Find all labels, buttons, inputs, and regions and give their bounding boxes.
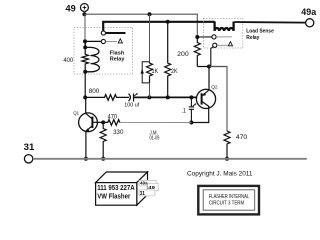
relay coil resistance 400 zigzag bbox=[82, 47, 89, 71]
resistor 470 base Q1 bbox=[103, 120, 120, 126]
VW flasher module 3D box bbox=[96, 172, 148, 205]
dashed box Load Sense Relay bbox=[203, 18, 242, 48]
wire 1K drop bbox=[149, 14, 151, 62]
svg-text:31: 31 bbox=[140, 191, 145, 197]
wire ground rail 31 bbox=[33, 158, 307, 160]
svg-text:Relay: Relay bbox=[246, 35, 260, 41]
wire 200 bottom to 470 drop bbox=[197, 66, 227, 68]
resistor 2K bbox=[165, 22, 171, 98]
load sense relay coil bbox=[215, 22, 234, 31]
node coil tap bbox=[83, 39, 87, 43]
wire coil top to contact K1b bbox=[85, 40, 101, 42]
wire contact K2b to emitter node bbox=[211, 47, 213, 67]
svg-text:Q2: Q2 bbox=[211, 85, 218, 91]
wire coil bottom to mid node bbox=[84, 72, 86, 98]
node Q2 base / C2 top bbox=[189, 95, 193, 99]
svg-text:Load Sense: Load Sense bbox=[246, 29, 274, 35]
svg-text:Relay: Relay bbox=[110, 56, 125, 62]
wire contact K2b throw bbox=[217, 44, 228, 46]
node 330 rail bbox=[101, 157, 105, 161]
terminal 49a bbox=[301, 7, 317, 27]
wire Q1 collector up bbox=[85, 97, 87, 113]
capacitor C2 value .1 bbox=[189, 97, 197, 122]
relay contact K1a pivot bbox=[101, 31, 105, 35]
node C2 bottom bbox=[189, 121, 193, 125]
wire contact K1b throw bbox=[106, 41, 117, 43]
relay contact K2a pivot bbox=[212, 35, 216, 39]
wire left vertical 49 to coil bbox=[84, 14, 86, 41]
svg-text:2K: 2K bbox=[171, 68, 178, 75]
terminal tab 49 bbox=[148, 183, 159, 190]
fixed contact triangle load sense bbox=[228, 42, 232, 46]
node mid left bbox=[83, 95, 87, 99]
svg-text:49: 49 bbox=[66, 3, 76, 14]
wire Q1 emitter to rail bbox=[85, 131, 87, 159]
relay contact K1b bbox=[101, 39, 105, 43]
trimmer 1K bbox=[141, 62, 153, 83]
terminal tab 49a bbox=[139, 180, 156, 185]
relay armature K1a bbox=[106, 32, 126, 34]
node Q2 emitter junction bbox=[207, 65, 211, 69]
node rail to 1K bbox=[148, 12, 152, 16]
dashed box Flash Relay bbox=[74, 28, 133, 75]
svg-text:.1: .1 bbox=[181, 107, 186, 114]
terminal 31 bbox=[24, 142, 35, 163]
terminal 49 bbox=[66, 3, 89, 14]
resistor 800 bbox=[85, 95, 129, 101]
svg-text:1K: 1K bbox=[152, 68, 159, 75]
svg-text:VW Flasher: VW Flasher bbox=[97, 191, 130, 200]
fixed contact triangle flash relay bbox=[118, 39, 122, 43]
relay contact K2b bbox=[213, 43, 217, 47]
wire 1K to mid line bbox=[149, 83, 151, 98]
svg-text:49: 49 bbox=[148, 185, 155, 191]
wire 200 top to contact K2a bbox=[197, 36, 212, 38]
wire top rail bbox=[84, 14, 197, 37]
node top rail junction bbox=[82, 12, 86, 16]
wire flash contact feed bbox=[103, 22, 215, 31]
resistor 470 right bbox=[224, 131, 230, 159]
wire coil to terminal 49a bbox=[235, 21, 306, 24]
node coil top bbox=[83, 45, 87, 49]
node 470 to ground rail bbox=[225, 157, 229, 161]
svg-text:800: 800 bbox=[89, 88, 100, 95]
svg-text:330: 330 bbox=[113, 129, 124, 136]
wire terminal 49 to top rail junction bbox=[83, 12, 85, 15]
svg-text:FLASHER INTERNAL: FLASHER INTERNAL bbox=[209, 194, 249, 200]
svg-text:200: 200 bbox=[177, 51, 189, 58]
node feed 2K bbox=[166, 20, 170, 24]
node Q1 base bbox=[101, 120, 105, 124]
svg-text:01-09: 01-09 bbox=[150, 135, 160, 141]
node 2K bottom bbox=[166, 95, 170, 99]
title box FLASHER INTERNAL CIRCUIT 3 TERM bbox=[198, 186, 259, 215]
svg-text:31: 31 bbox=[24, 142, 35, 153]
wire emitter node to 470 bbox=[209, 67, 227, 132]
svg-text:Copyright J. Mais 2011: Copyright J. Mais 2011 bbox=[187, 170, 253, 177]
transistor Q2 bbox=[196, 85, 218, 109]
resistor 200 bbox=[194, 37, 200, 67]
svg-text:100 uf: 100 uf bbox=[124, 103, 140, 109]
wire Q2 collector down bbox=[191, 106, 208, 122]
wire Q2 emitter up bbox=[208, 67, 210, 90]
capacitor C1 100uf bbox=[129, 93, 138, 102]
terminal tab 31 bbox=[139, 190, 155, 196]
relay coil 400 loops bbox=[85, 47, 99, 71]
svg-text:CIRCUIT 3 TERM: CIRCUIT 3 TERM bbox=[209, 201, 245, 207]
svg-text:49a: 49a bbox=[140, 181, 148, 187]
wire cap to Q2 base bbox=[134, 96, 197, 98]
wire 470 to C2 node bbox=[119, 121, 192, 123]
resistor 330 bbox=[100, 122, 106, 158]
svg-text:470: 470 bbox=[236, 134, 248, 141]
relay armature K2a bbox=[216, 36, 231, 38]
svg-text:Flash: Flash bbox=[110, 50, 125, 56]
svg-text:470: 470 bbox=[108, 114, 118, 121]
node Q1 emitter rail bbox=[84, 157, 88, 161]
svg-text:49a: 49a bbox=[301, 7, 317, 18]
transistor Q1 bbox=[73, 110, 103, 131]
node 1K bottom bbox=[147, 95, 151, 99]
svg-text:Q1: Q1 bbox=[73, 110, 79, 116]
node coil bottom bbox=[83, 70, 87, 74]
node 200 top bbox=[195, 35, 199, 39]
svg-text:400: 400 bbox=[63, 57, 73, 64]
